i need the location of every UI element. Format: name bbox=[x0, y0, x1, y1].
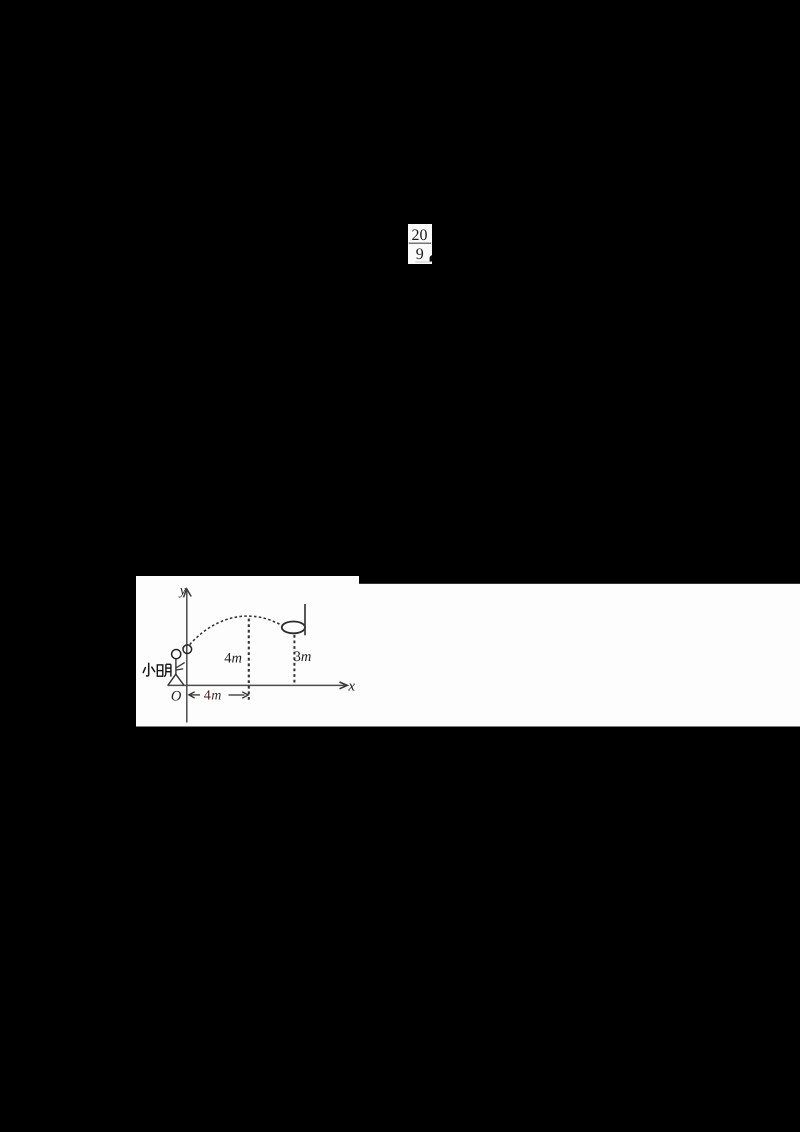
hoop ellipse (basket rim) bbox=[282, 622, 305, 634]
y-axis arrowhead bbox=[184, 589, 192, 598]
y-axis bbox=[186, 591, 188, 723]
right arrowhead bbox=[242, 692, 248, 698]
svg-text:4m: 4m bbox=[224, 650, 242, 666]
fraction white box bbox=[408, 224, 432, 264]
ball circle on axis bbox=[183, 645, 192, 654]
diagram white panel right band bbox=[359, 584, 800, 727]
stick figure arm raised bbox=[176, 663, 185, 668]
trajectory dashed parabola bbox=[190, 616, 283, 645]
小明 label: char 明 bbox=[157, 664, 171, 676]
peak dashed vertical line (4m height) bbox=[248, 619, 250, 702]
stick figure arm lower bbox=[176, 669, 183, 670]
fraction bar bbox=[409, 242, 431, 244]
小明 label: char 小 bbox=[143, 663, 154, 676]
x-axis arrowhead bbox=[340, 682, 348, 689]
svg-text:9: 9 bbox=[416, 246, 424, 263]
svg-text:O: O bbox=[171, 689, 182, 705]
hoop dashed vertical line (3m height) bbox=[293, 635, 295, 685]
diagram white panel left bbox=[136, 576, 359, 727]
svg-text:3m: 3m bbox=[294, 649, 312, 665]
left arrowhead bbox=[189, 692, 195, 698]
stick figure left leg bbox=[168, 674, 176, 685]
svg-text:m: m bbox=[211, 688, 221, 703]
hoop pole bbox=[304, 604, 306, 635]
left arrow of 4m span bbox=[191, 694, 201, 696]
svg-text:4: 4 bbox=[204, 688, 211, 703]
stick figure right leg bbox=[176, 674, 184, 685]
faint smudge line bbox=[416, 261, 432, 263]
svg-text:x: x bbox=[347, 679, 355, 695]
svg-text:y: y bbox=[178, 583, 187, 598]
x-axis bbox=[167, 684, 345, 686]
right arrow of 4m span bbox=[229, 694, 245, 696]
svg-text:20: 20 bbox=[412, 227, 428, 244]
stick figure body bbox=[175, 659, 177, 675]
stick figure head bbox=[172, 650, 181, 659]
comma artifact bottom-right of fraction box bbox=[430, 255, 433, 261]
